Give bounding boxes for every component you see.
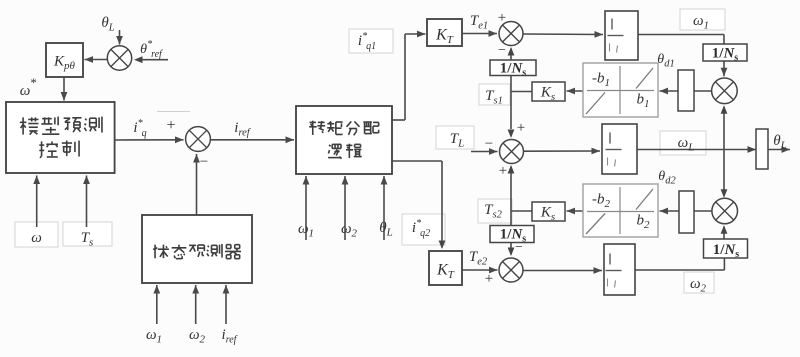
svg-text:+: +: [517, 120, 525, 136]
svg-text:iref: iref: [222, 327, 238, 346]
svg-text:ω1: ω1: [298, 221, 314, 240]
svg-text:*: *: [30, 75, 37, 90]
svg-text:−: −: [515, 240, 523, 255]
svg-text:−: −: [498, 43, 506, 58]
svg-text:ω2: ω2: [189, 327, 206, 346]
svg-text:−: −: [485, 136, 493, 152]
svg-text:+: +: [166, 117, 175, 134]
svg-text:θL: θL: [101, 15, 114, 34]
svg-text:Te1: Te1: [470, 13, 488, 32]
svg-text:ω1: ω1: [146, 327, 162, 346]
svg-text:Te2: Te2: [469, 249, 488, 268]
svg-text:θL: θL: [773, 133, 787, 152]
svg-text:θL: θL: [379, 220, 393, 239]
svg-text:−: −: [200, 154, 208, 170]
svg-text:i*q: i*q: [133, 118, 146, 139]
svg-text:+: +: [498, 10, 506, 26]
svg-text:iref: iref: [234, 120, 252, 139]
svg-text:ω: ω: [31, 230, 42, 246]
svg-text:+: +: [485, 271, 493, 287]
svg-text:θd1: θd1: [657, 52, 674, 70]
svg-text:θd2: θd2: [658, 169, 676, 187]
svg-text:θ*ref: θ*ref: [140, 39, 163, 60]
svg-text:+: +: [499, 163, 507, 179]
svg-text:ω: ω: [20, 83, 31, 99]
svg-text:ω2: ω2: [341, 221, 358, 240]
